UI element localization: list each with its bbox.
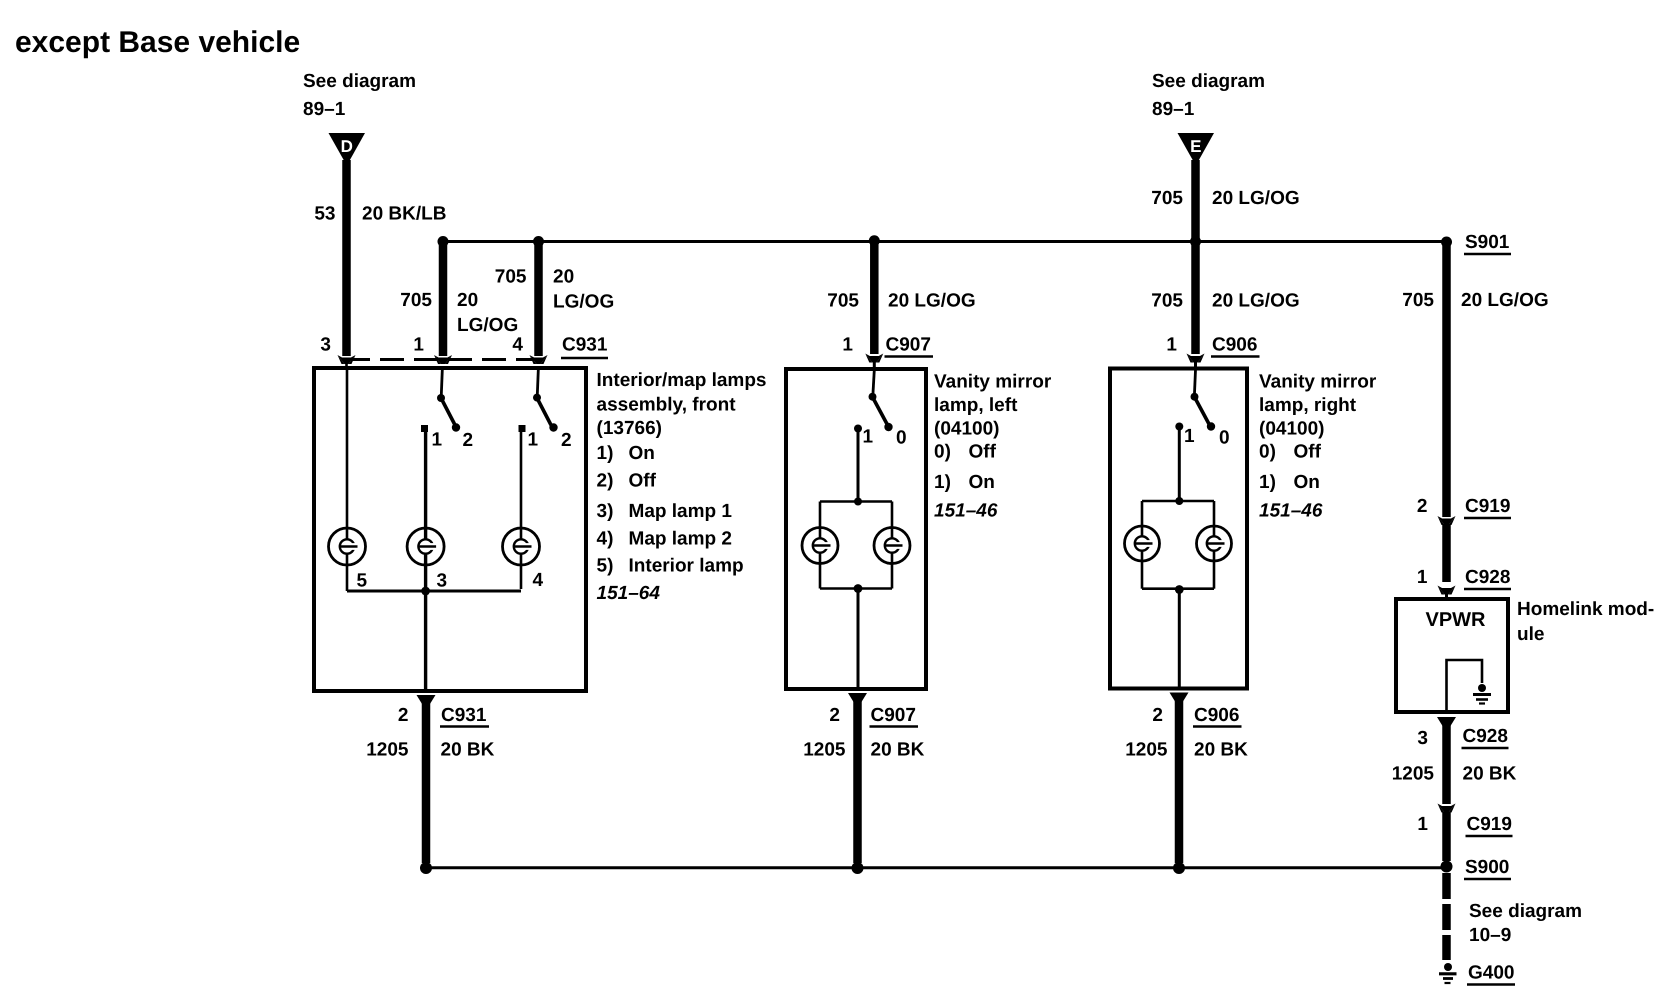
svg-text:1: 1 [1166, 335, 1177, 356]
svg-text:5): 5) [597, 556, 614, 577]
svg-text:2: 2 [1417, 496, 1428, 517]
connector label C931 [561, 335, 608, 359]
junction lamp common [421, 587, 430, 596]
svg-text:2: 2 [829, 705, 840, 726]
wire: terminal 1 down to lamp pair [857, 430, 860, 502]
svg-text:Interior/map lamps: Interior/map lamps [597, 370, 767, 391]
svg-text:705: 705 [827, 291, 859, 312]
off-page connector E (See diagram 89-1) [1152, 71, 1265, 166]
svg-text:0: 0 [896, 428, 907, 449]
svg-text:lamp, right: lamp, right [1259, 395, 1357, 416]
splice S901 [1441, 232, 1511, 254]
svg-text:See diagram: See diagram [303, 71, 416, 92]
wire 705 20 LG/OG to C931 pin 4 [495, 242, 614, 365]
svg-text:1: 1 [413, 335, 424, 356]
svg-text:Off: Off [969, 442, 997, 463]
svg-text:2: 2 [561, 430, 572, 451]
pin 1 / C907 labels [842, 335, 933, 357]
svg-text:705: 705 [1151, 188, 1183, 209]
pin 2 / C931 labels [398, 705, 489, 727]
lamp pair parallel loop [1142, 501, 1214, 589]
svg-text:C928: C928 [1465, 567, 1510, 588]
vanity lamp bulb left [1125, 526, 1160, 561]
svg-text:1): 1) [597, 443, 614, 464]
vanity lamp bulb left [802, 528, 838, 564]
vanity lamp bulb right [1197, 526, 1232, 561]
wire: horizontal bus to splice S901 [443, 240, 1447, 243]
svg-text:3: 3 [320, 335, 331, 356]
svg-text:10–9: 10–9 [1469, 925, 1511, 946]
svg-text:Map lamp 2: Map lamp 2 [629, 529, 732, 550]
svg-text:See diagram: See diagram [1469, 901, 1582, 922]
svg-text:ule: ule [1517, 624, 1544, 645]
interior lamp bulb (5) [329, 528, 366, 565]
svg-text:1): 1) [934, 472, 951, 493]
internal wire VPWR to ground [1447, 660, 1483, 712]
svg-text:C928: C928 [1463, 726, 1508, 747]
junction at ground bus [852, 862, 864, 874]
svg-text:151–64: 151–64 [597, 583, 661, 604]
svg-text:1): 1) [1259, 472, 1276, 493]
map lamp 1 bulb (3) [407, 528, 444, 565]
wire: terminal 1 down to lamp pair [1178, 428, 1181, 501]
junction at wire 705 #1 [438, 236, 449, 247]
ground G400 symbol [1439, 963, 1457, 983]
svg-text:Map lamp 1: Map lamp 1 [629, 501, 733, 522]
svg-text:1205: 1205 [1125, 740, 1168, 761]
connector C919 pin 1 (in-line) [1417, 804, 1512, 837]
svg-text:1: 1 [1184, 426, 1195, 447]
svg-text:20: 20 [457, 290, 478, 311]
svg-text:D: D [341, 137, 353, 156]
svg-text:3: 3 [437, 571, 448, 592]
svg-text:705: 705 [1151, 291, 1183, 312]
junction bottom of lamp pair [1175, 585, 1184, 594]
svg-text:C931: C931 [562, 335, 608, 356]
svg-text:2: 2 [398, 705, 409, 726]
lamp pair parallel loop [820, 502, 892, 589]
junction top of lamp pair [854, 498, 862, 506]
svg-text:2: 2 [1152, 705, 1163, 726]
svg-text:C919: C919 [1465, 496, 1510, 517]
component box: Homelink module [1396, 599, 1508, 712]
wire 1205 20 BK from C928 pin 3 [1392, 724, 1517, 804]
wire: terminal 1 to map lamp 1 [424, 432, 427, 539]
svg-text:0): 0) [1259, 442, 1276, 463]
svg-text:E: E [1190, 137, 1201, 156]
component box: Vanity mirror lamp, left [786, 369, 926, 689]
svg-text:0: 0 [1219, 428, 1230, 449]
wire 705 20 LG/OG from S901 [1402, 242, 1548, 517]
vanity lamp bulb right [874, 528, 910, 564]
svg-text:1205: 1205 [803, 740, 846, 761]
see diagram 10-9 note [1469, 901, 1582, 946]
internal ground symbol [1473, 684, 1491, 704]
svg-text:20 LG/OG: 20 LG/OG [1212, 188, 1300, 209]
junction at connector E wire [1190, 236, 1201, 247]
svg-text:Vanity mirror: Vanity mirror [1259, 372, 1377, 393]
wire C919 to C928 [1442, 524, 1451, 582]
switch 1-2 (map lamp 1) [437, 370, 460, 432]
wire labels below splice [1151, 291, 1299, 370]
svg-text:20 LG/OG: 20 LG/OG [888, 291, 976, 312]
svg-text:4): 4) [597, 529, 614, 550]
svg-text:C907: C907 [886, 335, 931, 356]
svg-text:151–46: 151–46 [934, 501, 998, 522]
wire: lamp pair to pin 2 [857, 589, 860, 688]
connector C907 pin 2 arrow [848, 693, 867, 706]
svg-text:G400: G400 [1468, 963, 1514, 984]
svg-text:C931: C931 [441, 705, 487, 726]
switch terminal 1 (square) [421, 425, 428, 432]
wire: terminal 1 to map lamp 2 [520, 432, 523, 539]
svg-text:(04100): (04100) [934, 419, 1000, 440]
svg-text:20: 20 [553, 267, 574, 288]
svg-text:On: On [1294, 472, 1320, 493]
wire 705 20 LG/OG to C931 pin 1 [400, 242, 518, 365]
svg-text:1: 1 [842, 335, 853, 356]
svg-text:705: 705 [495, 267, 527, 288]
switch terminal 1 (square) [519, 425, 526, 432]
wire: common to pin 2 [424, 591, 427, 689]
junction top of lamp pair [1175, 497, 1183, 505]
svg-text:20 BK: 20 BK [1194, 740, 1248, 761]
svg-text:(13766): (13766) [597, 418, 663, 439]
svg-text:1: 1 [1417, 814, 1428, 835]
svg-text:0): 0) [934, 442, 951, 463]
switch 1-2 (map lamp 2) [533, 370, 558, 432]
annotation: Homelink module name [1517, 599, 1654, 645]
connector C928 pin 3 arrow below Homelink [1417, 717, 1508, 749]
annotation: Interior/map lamps assembly legend [597, 370, 767, 604]
svg-text:151–46: 151–46 [1259, 501, 1323, 522]
pin 2 / C906 labels [1152, 705, 1241, 727]
svg-text:20 BK: 20 BK [871, 740, 925, 761]
wire: lamp pair to pin 2 [1178, 590, 1181, 687]
svg-text:20 BK: 20 BK [1463, 764, 1517, 785]
svg-text:3): 3) [597, 501, 614, 522]
switch terminal 1 dot [854, 425, 862, 433]
component box: Vanity mirror lamp, right [1110, 369, 1247, 689]
svg-text:LG/OG: LG/OG [553, 292, 614, 313]
svg-text:On: On [629, 443, 655, 464]
annotation: Vanity mirror lamp, right legend [1259, 372, 1377, 522]
svg-text:2: 2 [463, 430, 474, 451]
svg-text:See diagram: See diagram [1152, 71, 1265, 92]
switch 1-0 vanity left [869, 370, 893, 431]
svg-text:1: 1 [432, 430, 443, 451]
svg-text:20 LG/OG: 20 LG/OG [1212, 291, 1300, 312]
svg-text:2): 2) [597, 471, 614, 492]
svg-text:C907: C907 [871, 705, 916, 726]
pin 1 / C906 labels [1166, 335, 1259, 357]
connector C931 dashed line [346, 358, 546, 361]
svg-text:Off: Off [1294, 442, 1322, 463]
svg-text:89–1: 89–1 [303, 99, 346, 120]
svg-text:Interior lamp: Interior lamp [629, 556, 744, 577]
wire: lamp common bus inside box [347, 590, 521, 593]
svg-text:VPWR: VPWR [1426, 609, 1487, 631]
svg-text:S900: S900 [1465, 857, 1509, 878]
annotation: Vanity mirror lamp, left legend [934, 372, 1052, 522]
wire 1205 20 BK from C906 pin 2 [1125, 700, 1248, 863]
svg-text:S901: S901 [1465, 232, 1510, 253]
svg-text:C906: C906 [1194, 705, 1239, 726]
wire 705 20 LG/OG to C907 pin 1 [827, 241, 975, 370]
svg-text:20 BK: 20 BK [441, 740, 495, 761]
svg-text:assembly, front: assembly, front [597, 395, 737, 416]
junction at wire 705 #2 [533, 236, 544, 247]
wire 705 20 LG/OG from connector E [1151, 160, 1299, 354]
svg-text:705: 705 [400, 290, 432, 311]
svg-text:1: 1 [1417, 567, 1428, 588]
svg-text:C919: C919 [1467, 814, 1512, 835]
wire: ground bus to S900 [426, 866, 1447, 869]
svg-text:705: 705 [1402, 290, 1434, 311]
junction at vanity-left feed [869, 235, 880, 246]
svg-text:53: 53 [314, 204, 335, 225]
svg-text:except Base vehicle: except Base vehicle [15, 26, 300, 59]
svg-text:1: 1 [528, 430, 539, 451]
svg-text:(04100): (04100) [1259, 419, 1325, 440]
svg-text:On: On [969, 472, 995, 493]
connector C906 pin 2 arrow [1170, 693, 1189, 706]
svg-text:lamp, left: lamp, left [934, 395, 1018, 416]
switch terminal 1 dot [1175, 423, 1183, 431]
junction at ground bus [420, 862, 432, 874]
wire 1205 20 BK from C931 pin 2 [366, 703, 494, 863]
junction at ground bus [1173, 862, 1185, 874]
svg-text:89–1: 89–1 [1152, 99, 1195, 120]
svg-text:3: 3 [1417, 728, 1428, 749]
svg-text:Off: Off [629, 471, 657, 492]
svg-text:1205: 1205 [366, 740, 409, 761]
ground label G400 [1467, 963, 1515, 985]
svg-text:20 LG/OG: 20 LG/OG [1461, 290, 1549, 311]
off-page connector D (See diagram 89-1) [303, 71, 416, 166]
svg-text:C906: C906 [1212, 335, 1257, 356]
switch 1-0 vanity right [1191, 370, 1216, 431]
wire: pin 3 to interior lamp (5) [346, 370, 349, 539]
wire 53 20 BK/LB from connector D to C931 pin 3 [314, 160, 446, 370]
junction bottom of lamp pair [854, 584, 863, 593]
component box: Interior/map lamps assembly, front [314, 368, 586, 691]
connector C919 pin 2 (in-line) [1417, 496, 1511, 525]
svg-text:1205: 1205 [1392, 764, 1435, 785]
svg-text:20 BK/LB: 20 BK/LB [362, 204, 446, 225]
wire to ground G400 (dashed) [1442, 873, 1451, 960]
svg-text:Homelink mod-: Homelink mod- [1517, 599, 1654, 620]
svg-text:4: 4 [533, 570, 544, 591]
connector C931 pin 2 arrow [417, 695, 436, 708]
svg-text:Vanity mirror: Vanity mirror [934, 372, 1052, 393]
splice S900 [1441, 857, 1512, 879]
wire C919 to splice S900 [1442, 812, 1451, 861]
pin 2 / C907 labels [829, 705, 918, 727]
svg-text:1: 1 [863, 427, 874, 448]
svg-text:5: 5 [357, 571, 368, 592]
connector C928 pin 1 into Homelink [1417, 567, 1511, 599]
svg-text:LG/OG: LG/OG [457, 315, 518, 336]
map lamp 2 bulb (4) [503, 528, 540, 565]
wire 1205 20 BK from C907 pin 2 [803, 701, 924, 863]
svg-text:4: 4 [512, 335, 523, 356]
